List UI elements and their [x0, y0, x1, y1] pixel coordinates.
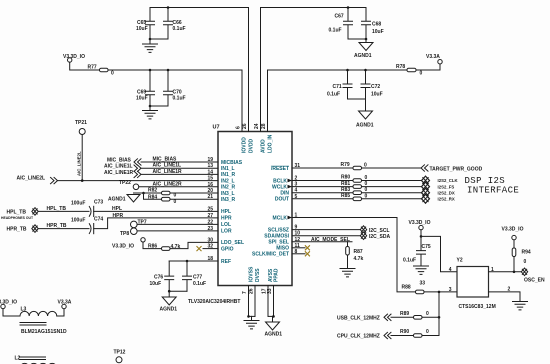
- junction IOVSS: [247, 315, 250, 318]
- junction R82 node: [142, 192, 145, 195]
- svg-text:0.1uF: 0.1uF: [173, 26, 186, 32]
- resistor R84: [148, 194, 218, 204]
- ground under R87: [340, 269, 355, 277]
- svg-text:10uF: 10uF: [136, 26, 148, 32]
- node USB_CLK_12MHZ: [337, 314, 414, 321]
- node TARGET_PWR_GOOD: [421, 165, 483, 173]
- node I2S2_DX: [422, 188, 455, 197]
- svg-text:AIC_LINE2L: AIC_LINE2L: [17, 176, 46, 182]
- wire crystal pin2 to ground: [489, 292, 521, 302]
- capacitor C70: [164, 70, 186, 106]
- svg-text:TP8: TP8: [120, 231, 129, 237]
- svg-text:SCL/SSZ: SCL/SSZ: [268, 227, 289, 233]
- test point TP22: [119, 180, 139, 190]
- svg-text:0.1uF: 0.1uF: [173, 96, 186, 102]
- node I2C_SDA: [360, 232, 390, 240]
- svg-text:V3.3D_IO: V3.3D_IO: [502, 227, 524, 233]
- svg-text:TARGET_PWR_GOOD: TARGET_PWR_GOOD: [430, 166, 483, 172]
- capacitor C66: [164, 8, 186, 40]
- power V3.3A bottom: [58, 300, 72, 309]
- ground AGND1 under PPAD: [265, 316, 283, 337]
- svg-text:4: 4: [449, 267, 452, 273]
- svg-text:0: 0: [426, 311, 429, 317]
- svg-text:TP12: TP12: [114, 350, 126, 356]
- power V3.3A top right: [426, 54, 442, 64]
- junction C70 rail: [167, 69, 170, 72]
- ground AGND1 near R82: [108, 193, 144, 203]
- wire DIN to R83: [292, 192, 353, 194]
- svg-text:C76: C76: [154, 275, 163, 281]
- pin PPAD bottom vertical: [273, 286, 275, 317]
- svg-text:R87: R87: [354, 249, 363, 255]
- svg-text:IN3_L: IN3_L: [221, 191, 235, 197]
- capacitor C72: [361, 70, 383, 99]
- svg-text:0.1uF: 0.1uF: [193, 281, 206, 287]
- wire AIC_LINE2R to IN2_R: [139, 181, 218, 187]
- pin IOVSS bottom vertical: [248, 286, 250, 317]
- junction C75 node: [420, 235, 423, 238]
- svg-text:IOVSS: IOVSS: [248, 266, 254, 282]
- ground under C69: [143, 106, 158, 119]
- svg-text:I2S2_CLK: I2S2_CLK: [438, 178, 459, 183]
- junction R89 branch: [438, 316, 441, 319]
- test point TP12: [114, 350, 126, 363]
- junction C77 top: [186, 260, 189, 263]
- wire DOUT to R85: [292, 198, 353, 200]
- node I2C_SCL: [360, 226, 389, 234]
- svg-text:R78: R78: [396, 64, 405, 70]
- resistor R90 0: [400, 329, 439, 337]
- svg-text:SDA/MOSI: SDA/MOSI: [264, 234, 289, 240]
- svg-text:0.1uF: 0.1uF: [329, 28, 342, 34]
- svg-text:IN1_R: IN1_R: [221, 172, 236, 178]
- svg-text:I2S2_DX: I2S2_DX: [438, 190, 455, 195]
- svg-text:I2C_SDA: I2C_SDA: [369, 234, 391, 240]
- junction C66 top: [167, 6, 170, 9]
- svg-text:IN2_R: IN2_R: [221, 185, 236, 191]
- resistor R83: [341, 187, 422, 195]
- svg-text:DVSS: DVSS: [255, 268, 261, 282]
- svg-text:MIC_BIAS: MIC_BIAS: [153, 157, 178, 163]
- svg-text:R94: R94: [522, 250, 531, 256]
- svg-text:Y2: Y2: [457, 258, 463, 264]
- junction R94 bottom: [513, 271, 516, 274]
- svg-text:7: 7: [242, 291, 248, 294]
- ground AGND1 under C76: [160, 291, 178, 312]
- wire REF: [169, 260, 218, 262]
- wire C67 bottom: [348, 38, 366, 40]
- input arrow BCLK: [288, 179, 293, 183]
- svg-text:DOUT: DOUT: [275, 197, 289, 203]
- svg-text:R84: R84: [148, 194, 157, 200]
- svg-text:10uF: 10uF: [150, 281, 162, 287]
- svg-text:I2S2_FS: I2S2_FS: [438, 184, 455, 189]
- svg-text:100uF: 100uF: [71, 201, 85, 207]
- svg-text:DVDD: DVDD: [249, 138, 255, 153]
- node I2S2_FS: [422, 182, 455, 191]
- resistor R86 4.7k: [148, 242, 218, 250]
- wire C76-C77 bottom: [169, 290, 187, 292]
- resistor R79: [341, 162, 422, 170]
- test point TP21: [75, 120, 87, 181]
- svg-text:0: 0: [174, 199, 177, 205]
- node I2S2_RX: [422, 194, 455, 203]
- ground under C75: [414, 266, 429, 274]
- svg-text:33: 33: [267, 288, 273, 294]
- power V3.3D_IO at C75: [409, 220, 431, 236]
- wire crystal pin1 to OSC_EN: [489, 271, 522, 273]
- svg-text:0: 0: [524, 259, 527, 265]
- svg-text:R86: R86: [148, 243, 157, 249]
- svg-text:AIC_LINE1L: AIC_LINE1L: [104, 164, 133, 170]
- svg-text:LOL: LOL: [221, 222, 231, 228]
- resistor R85: [341, 193, 422, 201]
- wire SCL to I2C_SCL: [292, 229, 360, 231]
- junction C68 bottom: [365, 38, 368, 41]
- svg-text:AGND1: AGND1: [356, 123, 374, 129]
- svg-text:0.1uF: 0.1uF: [403, 258, 416, 264]
- pin AVSS bottom vertical: [267, 286, 269, 317]
- junction C67 rail: [347, 6, 350, 9]
- svg-text:28: 28: [261, 123, 267, 129]
- ground AGND1 under C68: [354, 39, 373, 59]
- inductor L3 ferrite bead: [20, 307, 67, 336]
- wire to crystal pin4: [421, 236, 457, 271]
- svg-text:V3.3D_IO: V3.3D_IO: [112, 243, 134, 249]
- svg-text:AIC_LINE1L: AIC_LINE1L: [153, 163, 182, 169]
- junction PPAD: [272, 315, 275, 318]
- capacitor C74 polarized 100uF: [71, 213, 218, 234]
- svg-text:V3.3A: V3.3A: [426, 54, 440, 60]
- svg-text:0.1uF: 0.1uF: [327, 92, 340, 98]
- svg-text:AIC_LINE2L: AIC_LINE2L: [77, 151, 82, 176]
- junction C71 rail: [346, 69, 349, 72]
- ground AGND1 under C72: [356, 99, 374, 129]
- ground under crystal pin2: [513, 302, 528, 310]
- svg-text:10uF: 10uF: [371, 92, 383, 98]
- capacitor C75 0.1uF: [403, 236, 431, 266]
- svg-text:MIC_BIAS: MIC_BIAS: [107, 158, 132, 164]
- svg-text:HPL: HPL: [221, 209, 231, 215]
- svg-text:R90: R90: [400, 329, 409, 335]
- svg-text:HPL: HPL: [112, 206, 122, 212]
- wire SDA to I2C_SDA: [292, 235, 360, 237]
- node I2S2_CLK: [422, 176, 459, 185]
- svg-text:AIC_LINE1R: AIC_LINE1R: [104, 170, 134, 176]
- svg-text:R89: R89: [400, 311, 409, 317]
- svg-text:24: 24: [254, 123, 260, 129]
- svg-text:GPIO: GPIO: [221, 246, 234, 252]
- svg-text:C68: C68: [372, 22, 381, 28]
- node HPR_TB: [7, 225, 39, 233]
- resistor R77: [88, 65, 115, 77]
- svg-text:HPR_TB: HPR_TB: [47, 223, 67, 229]
- wire AIC_MODE_SEL: [292, 237, 352, 243]
- capacitor C76 10uF: [150, 261, 174, 291]
- svg-text:V3.3D_IO: V3.3D_IO: [409, 220, 431, 226]
- wire rail IOVDD: [108, 69, 242, 71]
- svg-text:U7: U7: [213, 125, 220, 131]
- svg-text:BCLK: BCLK: [273, 178, 287, 184]
- node MIC_BIAS input: [107, 157, 218, 166]
- svg-text:IOVDD: IOVDD: [242, 137, 248, 153]
- wire pin3 branch down: [438, 292, 440, 336]
- svg-text:LOR: LOR: [221, 229, 232, 235]
- no-connect X on GPIO: [197, 246, 219, 251]
- wire AVSS-PPAD join: [268, 315, 274, 317]
- svg-text:C71: C71: [333, 84, 342, 90]
- wire C65 bottom: [150, 38, 168, 40]
- svg-text:R81: R81: [341, 181, 350, 187]
- svg-text:26: 26: [242, 123, 248, 129]
- svg-text:100uF: 100uF: [71, 218, 85, 224]
- svg-text:R82: R82: [148, 188, 157, 194]
- resistor R80: [341, 175, 422, 183]
- svg-text:IN3_R: IN3_R: [221, 197, 236, 203]
- svg-text:MCLK: MCLK: [273, 215, 288, 221]
- capacitor C73 polarized 100uF: [71, 200, 218, 217]
- capacitor C77 0.1uF: [183, 261, 207, 291]
- svg-text:IN2_L: IN2_L: [221, 178, 235, 184]
- wire C69 bottom: [150, 105, 168, 107]
- junction C72 rail: [364, 69, 367, 72]
- svg-text:WCLK: WCLK: [272, 184, 287, 190]
- svg-text:AIC_LINE2R: AIC_LINE2R: [153, 181, 183, 187]
- svg-text:10uF: 10uF: [136, 96, 148, 102]
- resistor R87 4.7k pulldown: [346, 242, 364, 269]
- svg-text:4.7k: 4.7k: [354, 256, 364, 262]
- svg-text:HPR_TB: HPR_TB: [7, 227, 27, 233]
- svg-text:C73: C73: [94, 200, 103, 206]
- node OSC_EN: [521, 268, 545, 284]
- svg-text:I2C_SCL: I2C_SCL: [369, 228, 390, 234]
- svg-text:TP21: TP21: [75, 120, 87, 126]
- wire rail LDO_IN: [268, 69, 408, 71]
- capacitor C68: [362, 8, 384, 40]
- pin IOVDD top vertical: [241, 70, 243, 132]
- input arrow MCLK: [288, 216, 293, 220]
- power V3.3D_IO at R94: [502, 227, 524, 240]
- svg-text:LDO_IN: LDO_IN: [268, 134, 274, 153]
- wire R78 to V3.3A: [416, 64, 440, 70]
- svg-text:AIC_MODE_SEL: AIC_MODE_SEL: [311, 237, 350, 243]
- svg-text:R85: R85: [341, 193, 350, 199]
- svg-text:HPR: HPR: [113, 213, 124, 219]
- svg-text:HEADPHONES OUT: HEADPHONES OUT: [1, 216, 34, 220]
- svg-text:26: 26: [249, 288, 255, 294]
- input arrow WCLK: [288, 185, 293, 189]
- resistor R82: [144, 188, 219, 199]
- wire jog to R84 row: [144, 193, 162, 199]
- svg-text:3: 3: [449, 287, 452, 293]
- wire top rail AVDD: [261, 7, 367, 9]
- wire MCLK long: [292, 218, 416, 292]
- svg-text:CTS16C83_12M: CTS16C83_12M: [459, 304, 496, 310]
- svg-text:HPR: HPR: [221, 216, 232, 222]
- svg-text:C74: C74: [94, 217, 103, 223]
- test point TP7: [131, 220, 219, 228]
- svg-text:CPU_CLK_12MHZ: CPU_CLK_12MHZ: [337, 334, 380, 340]
- resistor R94 pull-up: [512, 240, 531, 272]
- junction C69 rail: [149, 69, 152, 72]
- wire BCLK to R80: [292, 180, 353, 182]
- crystal Y2: [449, 258, 511, 311]
- svg-text:C72: C72: [371, 84, 380, 90]
- wire C71 bottom: [348, 98, 366, 100]
- svg-text:REF: REF: [221, 259, 231, 265]
- svg-text:/RESET: /RESET: [271, 166, 289, 172]
- svg-text:USB_CLK_12MHZ: USB_CLK_12MHZ: [337, 315, 380, 321]
- svg-text:6: 6: [236, 126, 242, 129]
- svg-text:10uF: 10uF: [372, 29, 384, 35]
- junction C69 bottom: [149, 105, 152, 108]
- capacitor C67: [329, 8, 353, 40]
- ground under C65: [143, 39, 158, 52]
- svg-text:V3.3D_IO: V3.3D_IO: [63, 54, 85, 60]
- svg-text:TP22: TP22: [119, 180, 131, 186]
- svg-text:AGND1: AGND1: [354, 53, 372, 59]
- svg-text:R83: R83: [341, 187, 350, 193]
- pin DVSS bottom vertical: [254, 286, 256, 317]
- svg-text:AVDD: AVDD: [261, 139, 267, 153]
- node AIC_LINE1R input: [104, 169, 218, 178]
- resistor R89 0: [400, 311, 439, 319]
- svg-text:33: 33: [420, 281, 426, 287]
- svg-text:R80: R80: [341, 175, 350, 181]
- svg-text:OSC_EN: OSC_EN: [524, 278, 545, 284]
- test point TP8: [120, 228, 218, 237]
- junction C76 bottom: [168, 290, 171, 293]
- wire top rail DVDD: [150, 7, 249, 9]
- svg-text:MICBIAS: MICBIAS: [221, 160, 243, 166]
- svg-text:INTERFACE: INTERFACE: [467, 186, 519, 196]
- capacitor C71: [327, 70, 352, 99]
- junction C65 bottom: [149, 38, 152, 41]
- svg-text:R79: R79: [341, 162, 350, 168]
- node AIC_LINE2L input far left: [17, 176, 219, 184]
- junction crystal pin3 node: [438, 291, 441, 294]
- svg-text:0: 0: [420, 71, 423, 77]
- power V3.3D_IO bottom left: [0, 300, 20, 317]
- node CPU_CLK_12MHZ: [337, 332, 414, 339]
- svg-text:0: 0: [174, 193, 177, 199]
- wire /RESET to R79: [292, 167, 353, 169]
- svg-text:AGND1: AGND1: [108, 197, 126, 203]
- svg-text:LDO_SEL: LDO_SEL: [221, 240, 244, 246]
- svg-text:BLM21AG151SN1D: BLM21AG151SN1D: [21, 329, 67, 335]
- wire IOVSS-DVSS join: [249, 315, 256, 317]
- power V3.3D_IO top left: [63, 54, 100, 70]
- svg-text:AIC_LINE1R: AIC_LINE1R: [153, 169, 183, 175]
- svg-text:AGND1: AGND1: [160, 307, 178, 313]
- svg-text:TLV320AIC3204IRHBT: TLV320AIC3204IRHBT: [188, 299, 240, 305]
- svg-text:R88: R88: [402, 285, 411, 291]
- svg-text:R77: R77: [88, 65, 97, 71]
- ground digital under IOVSS/DVSS: [244, 316, 259, 329]
- wire HPL_TB to C73: [38, 206, 89, 212]
- inductor L2 bottom edge: [15, 356, 57, 364]
- pin LDO_IN top vertical: [267, 70, 269, 132]
- svg-text:C77: C77: [193, 275, 202, 281]
- capacitor C69: [136, 70, 155, 106]
- pin DVDD top vertical: [248, 8, 250, 132]
- svg-text:IN1_L: IN1_L: [221, 166, 235, 172]
- svg-text:0: 0: [426, 329, 429, 335]
- svg-text:HPL_TB: HPL_TB: [47, 206, 67, 212]
- svg-text:SCLK/MIC_DET: SCLK/MIC_DET: [252, 252, 289, 258]
- svg-text:I2S2_RX: I2S2_RX: [438, 197, 455, 202]
- svg-text:AGND1: AGND1: [265, 332, 283, 338]
- text DSP I2S INTERFACE: [465, 176, 520, 196]
- resistor R88 33: [402, 281, 458, 294]
- svg-text:DIN: DIN: [280, 191, 289, 197]
- junction TP21 on AIC_LINE2L: [81, 179, 84, 182]
- IC U7 TLV320AIC3204IRHBT codec body: [188, 125, 292, 306]
- no-connect X on MISO: [292, 245, 310, 250]
- wire L3 to V3.3A: [57, 309, 64, 316]
- pin AVDD top vertical: [260, 8, 262, 132]
- svg-text:0: 0: [111, 71, 114, 77]
- wire HPR_TB to C74: [38, 223, 89, 229]
- resistor R81: [341, 181, 422, 189]
- wire WCLK to R81: [292, 186, 353, 188]
- power V3.3D_IO at R86: [112, 238, 162, 250]
- resistor R78: [396, 64, 423, 77]
- svg-text:L2: L2: [15, 356, 21, 362]
- node AIC_LINE1L input: [104, 163, 218, 172]
- svg-text:HPL_TB: HPL_TB: [7, 210, 27, 216]
- no-connect X on SCLK/MIC_DET: [292, 251, 310, 256]
- capacitor C65: [136, 8, 155, 40]
- svg-text:DSP I2S: DSP I2S: [465, 176, 506, 186]
- node HPL_TB: [7, 208, 39, 216]
- svg-text:PPAD: PPAD: [273, 268, 279, 282]
- svg-text:C75: C75: [422, 244, 431, 250]
- svg-text:C67: C67: [335, 14, 344, 20]
